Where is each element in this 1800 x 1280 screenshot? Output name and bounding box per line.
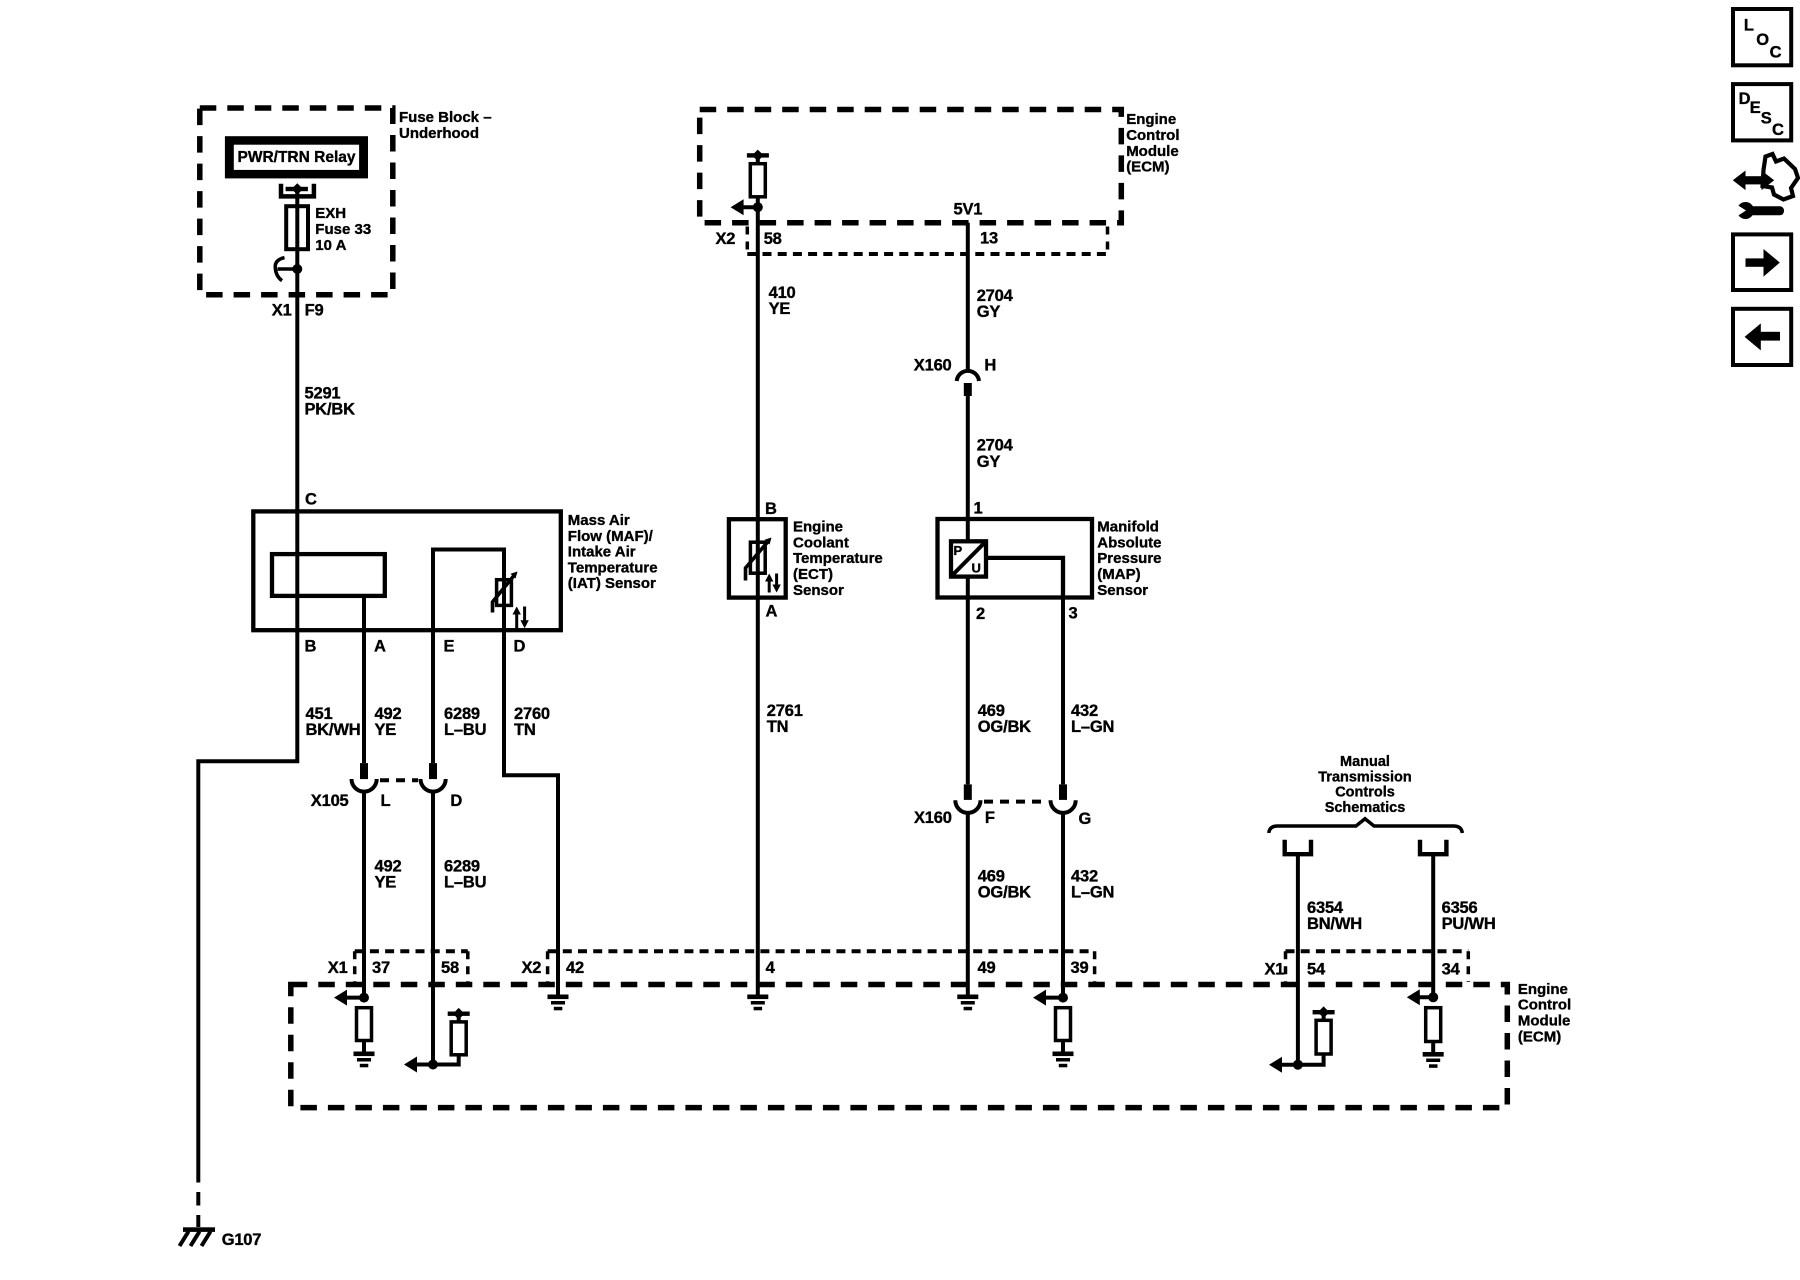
ground symbol at pin 42 — [548, 985, 569, 1011]
tap bar with diamond above ECM internal resistor — [747, 150, 769, 164]
connector cup below relay — [281, 184, 314, 197]
svg-text:Controls: Controls — [1335, 785, 1395, 801]
resistor below pin 39 — [1056, 1008, 1071, 1052]
svg-text:37: 37 — [372, 959, 390, 977]
fuse block underhood dashed box — [200, 108, 393, 295]
inline connector X105 pin D — [421, 763, 446, 792]
wire label 2760 TN — [514, 705, 550, 739]
junction dot pin 58 — [428, 1060, 438, 1070]
wire label 6354 BN/WH — [1307, 899, 1362, 933]
svg-text:TN: TN — [767, 718, 789, 736]
svg-text:Pressure: Pressure — [1097, 550, 1161, 567]
svg-text:Sensor: Sensor — [793, 582, 844, 599]
inline connector X160 pin H — [914, 356, 996, 396]
svg-text:C: C — [1772, 121, 1784, 139]
junction dot pin 39 — [1058, 993, 1068, 1003]
wire label 432 L-GN lower — [1071, 867, 1114, 901]
svg-text:2: 2 — [976, 605, 985, 623]
wire 2704 from X160 H to MAP sensor pin 1 — [966, 396, 970, 541]
svg-text:F: F — [985, 809, 995, 827]
dashed tie between X105 connectors — [380, 778, 418, 782]
svg-text:Manifold: Manifold — [1097, 519, 1159, 536]
svg-text:58: 58 — [441, 959, 459, 977]
svg-text:4: 4 — [766, 959, 776, 977]
svg-text:5V1: 5V1 — [954, 201, 983, 219]
inline connector X105 pin L — [352, 763, 377, 792]
svg-text:Fuse 33: Fuse 33 — [315, 221, 371, 238]
MAP sensor box — [938, 519, 1093, 598]
label Engine Control Module ECM top — [1126, 111, 1179, 175]
svg-text:EXH: EXH — [315, 205, 346, 222]
icon diagnostic tool (arrows and wrench) — [1733, 154, 1798, 219]
wire from resistor to pin 58 and down to ECT sensor — [756, 197, 760, 519]
wire E bend inside MAF box — [433, 550, 504, 631]
label Manifold Absolute Pressure MAP Sensor — [1097, 519, 1161, 599]
fuse clip hook symbol — [275, 258, 299, 281]
svg-text:(MAP): (MAP) — [1097, 566, 1140, 583]
svg-text:H: H — [984, 356, 996, 374]
junction dot at fuse output — [292, 264, 302, 274]
icon DESC button — [1733, 84, 1791, 140]
harness connector cup pin 54 feed — [1285, 840, 1311, 854]
wire label 492 YE upper — [375, 705, 402, 739]
svg-text:L: L — [381, 792, 391, 810]
resistor below pin 37 — [357, 1008, 372, 1052]
svg-text:Flow (MAF)/: Flow (MAF)/ — [568, 528, 654, 545]
chassis ground G107 — [180, 1227, 262, 1249]
svg-text:10 A: 10 A — [315, 237, 346, 254]
svg-text:OG/BK: OG/BK — [978, 718, 1031, 736]
internal arrow at pin 58 — [404, 1057, 433, 1073]
connector row X1 left of bottom ECM — [355, 951, 468, 982]
junction dot pin 54 — [1293, 1060, 1303, 1070]
svg-text:Temperature: Temperature — [568, 559, 658, 576]
connector row X2 of bottom ECM — [548, 951, 1095, 982]
pin labels 2 3 — [976, 605, 1078, 623]
wire from MAP element to pin 3 — [986, 558, 1063, 598]
internal arrow at pin 39 — [1033, 990, 1063, 1006]
svg-text:O: O — [1756, 31, 1769, 49]
svg-text:X1: X1 — [328, 959, 348, 977]
terminal tap bar with diamond at fuse top — [286, 183, 308, 195]
svg-text:OG/BK: OG/BK — [978, 883, 1031, 901]
svg-text:B: B — [765, 500, 777, 518]
svg-text:Absolute: Absolute — [1097, 534, 1161, 551]
svg-text:A: A — [766, 602, 778, 620]
junction dot pin 34 — [1428, 992, 1438, 1002]
ground symbol at pin 49 — [957, 995, 978, 1011]
MAP transducer P/U element — [951, 541, 986, 576]
internal arrow at pin 34 — [1407, 989, 1433, 1005]
wire label 469 OG/BK upper — [978, 702, 1031, 736]
pin label X1 F9 — [272, 301, 324, 319]
svg-text:A: A — [374, 637, 386, 655]
wire from X105 L to ECM pin 37 — [362, 791, 366, 997]
labels X160 F G — [914, 809, 1091, 828]
svg-text:Fuse Block –: Fuse Block – — [399, 109, 492, 126]
wire D from IAT to pin 42 run — [504, 605, 558, 994]
pin labels X2 58 13 — [716, 230, 998, 249]
svg-text:G107: G107 — [222, 1231, 262, 1249]
svg-text:X1: X1 — [272, 301, 292, 319]
wire label 6289 L-BU upper — [444, 705, 486, 739]
svg-text:YE: YE — [375, 721, 397, 739]
svg-text:TN: TN — [514, 721, 536, 739]
inline connector X160 pin G — [1051, 784, 1076, 812]
ground symbol below pin 37 resistor — [354, 1052, 375, 1068]
internal arrow at pin 37 — [334, 990, 364, 1006]
harness connector cup pin 34 feed — [1420, 840, 1446, 854]
ground symbol below pin 39 resistor — [1053, 1052, 1074, 1068]
svg-text:Module: Module — [1518, 1013, 1571, 1030]
svg-text:Control: Control — [1518, 997, 1571, 1014]
svg-text:YE: YE — [769, 300, 791, 318]
svg-text:Sensor: Sensor — [1097, 582, 1148, 599]
svg-text:X2: X2 — [716, 230, 736, 248]
connector row X1 right of bottom ECM — [1286, 951, 1469, 982]
svg-text:49: 49 — [978, 959, 996, 977]
inline connector X160 pin F — [955, 784, 980, 813]
svg-text:Engine: Engine — [1518, 981, 1568, 998]
svg-text:S: S — [1761, 109, 1772, 127]
pin labels B A E D — [305, 637, 526, 655]
svg-text:34: 34 — [1442, 961, 1461, 979]
svg-text:1: 1 — [974, 499, 983, 517]
svg-text:U: U — [972, 561, 981, 576]
wire label 6356 PU/WH — [1442, 899, 1496, 933]
pin labels X2 42 4 49 39 — [522, 959, 1089, 977]
svg-text:PWR/TRN Relay: PWR/TRN Relay — [238, 149, 356, 166]
svg-text:Coolant: Coolant — [793, 534, 849, 551]
resistor below pin 34 — [1426, 1008, 1441, 1052]
svg-text:GY: GY — [977, 453, 1001, 471]
svg-text:E: E — [444, 637, 455, 655]
svg-text:Mass Air: Mass Air — [568, 512, 630, 529]
svg-text:L–GN: L–GN — [1071, 883, 1114, 901]
svg-text:42: 42 — [566, 959, 584, 977]
wire from X160 G to ECM pin 39 — [1061, 813, 1065, 998]
label Mass Air Flow MAF IAT Sensor — [568, 512, 658, 592]
wire 2761 from ECT pin A to ECM pin 4 — [756, 598, 760, 995]
icon previous-page arrow button — [1733, 309, 1791, 365]
icon LOC button — [1733, 9, 1791, 65]
svg-text:PK/BK: PK/BK — [305, 401, 356, 419]
wire label 2704 GY upper — [977, 287, 1014, 321]
svg-text:Engine: Engine — [1126, 111, 1176, 128]
internal arrow to ECM circuits — [731, 199, 758, 215]
ground symbol below pin 34 resistor — [1423, 1052, 1444, 1068]
svg-text:GY: GY — [977, 303, 1001, 321]
svg-text:C: C — [1770, 43, 1782, 61]
wire 6356 to ECM pin 34 — [1431, 854, 1435, 997]
svg-text:Manual: Manual — [1340, 754, 1390, 770]
svg-text:X1: X1 — [1265, 961, 1285, 979]
svg-text:YE: YE — [375, 874, 397, 892]
wire E from MAF box to X105 D — [431, 630, 435, 763]
svg-text:D: D — [450, 792, 462, 810]
wire 6354 to ECM pin 54 — [1296, 854, 1300, 1064]
wire label 492 YE lower — [375, 858, 402, 892]
svg-text:Temperature: Temperature — [793, 550, 883, 567]
svg-text:X160: X160 — [914, 356, 952, 374]
svg-text:L–GN: L–GN — [1071, 718, 1114, 736]
wire label 5291 PK/BK — [305, 385, 356, 419]
dashed wire to G107 — [196, 1169, 200, 1227]
wire label 451 BK/WH — [306, 705, 361, 739]
wire 5V1 from ECM pin 13 down to X160 H — [966, 223, 970, 371]
wire label 432 L-GN upper — [1071, 702, 1114, 736]
junction dot on wire 410 — [753, 202, 763, 212]
svg-text:L–BU: L–BU — [444, 874, 486, 892]
labels X105 L D — [311, 792, 463, 810]
svg-text:F9: F9 — [305, 301, 324, 319]
resistor inside top ECM — [750, 164, 765, 197]
icon next-page arrow button — [1733, 234, 1791, 290]
airflow arrows inside MAF box — [513, 607, 529, 629]
pin labels X1 54 34 — [1265, 961, 1461, 979]
svg-text:58: 58 — [764, 230, 782, 248]
svg-text:3: 3 — [1069, 605, 1078, 623]
svg-text:13: 13 — [980, 230, 998, 248]
wire from X105 D to ECM pin 58 — [431, 791, 435, 1064]
wire from relay through fuse down to MAF pin C — [295, 189, 299, 511]
pin labels X1 37 58 — [328, 959, 459, 977]
wire label 410 YE — [769, 284, 796, 318]
wire label 469 OG/BK lower — [978, 867, 1031, 901]
svg-text:(ECM): (ECM) — [1518, 1028, 1561, 1045]
svg-text:(ECM): (ECM) — [1126, 159, 1169, 176]
wire label 6289 L-BU lower — [444, 858, 486, 892]
svg-text:PU/WH: PU/WH — [1442, 915, 1496, 933]
wire MAP pin 2 down to X160 F — [966, 577, 970, 785]
svg-text:X2: X2 — [522, 959, 542, 977]
svg-text:P: P — [954, 543, 963, 558]
svg-text:BN/WH: BN/WH — [1307, 915, 1362, 933]
IAT thermistor — [493, 572, 518, 613]
svg-text:D: D — [514, 637, 526, 655]
svg-text:39: 39 — [1071, 959, 1089, 977]
svg-text:E: E — [1750, 99, 1761, 117]
junction dot pin 37 — [359, 993, 369, 1003]
brace over manual transmission feeds — [1269, 819, 1463, 833]
wire from X160 F to ECM pin 49 — [966, 813, 970, 995]
ground symbol at pin 4 — [747, 995, 768, 1011]
pull-up resistor branch at pin 58 — [433, 1008, 470, 1065]
engine control module bottom dashed box — [291, 985, 1508, 1108]
svg-text:L–BU: L–BU — [444, 721, 486, 739]
label Manual Transmission Controls Schematics — [1318, 754, 1411, 816]
svg-text:(ECT): (ECT) — [793, 566, 833, 583]
pull-up resistor branch at pin 54 — [1298, 1006, 1335, 1064]
fuse EXH Fuse 33 10A — [286, 205, 371, 254]
internal arrow at pin 54 — [1269, 1057, 1298, 1073]
svg-text:G: G — [1079, 810, 1092, 828]
wire B from MAF down left to ground run — [198, 511, 297, 1169]
wire A from MAF to X105 L — [362, 596, 366, 763]
wire label 2704 GY lower — [977, 437, 1014, 471]
svg-text:BK/WH: BK/WH — [306, 721, 361, 739]
label Fuse Block Underhood — [399, 109, 492, 142]
dashed tie between X160 connectors — [984, 800, 1048, 804]
svg-text:L: L — [1744, 17, 1754, 35]
MAF/IAT sensor box — [253, 511, 561, 630]
svg-text:Intake Air: Intake Air — [568, 544, 636, 561]
svg-text:X160: X160 — [914, 809, 952, 827]
svg-text:B: B — [305, 637, 317, 655]
temperature arrows inside ECT box — [765, 574, 781, 593]
connector row X2 of top ECM — [747, 227, 1107, 255]
wire label 2761 TN — [767, 702, 803, 736]
svg-text:Engine: Engine — [793, 519, 843, 536]
engine control module top dashed box — [700, 110, 1122, 223]
svg-text:(IAT) Sensor: (IAT) Sensor — [568, 575, 656, 592]
svg-text:Control: Control — [1126, 127, 1179, 144]
svg-text:54: 54 — [1307, 961, 1326, 979]
label Engine Coolant Temperature ECT Sensor — [793, 519, 883, 599]
svg-text:X105: X105 — [311, 792, 349, 810]
svg-text:Transmission: Transmission — [1318, 769, 1411, 785]
svg-text:Underhood: Underhood — [399, 125, 479, 142]
relay K: PWR/TRN Relay box — [225, 136, 368, 178]
svg-text:C: C — [305, 491, 317, 509]
ECT sensor box — [729, 519, 786, 597]
svg-text:Module: Module — [1126, 143, 1179, 160]
ECT thermistor — [746, 519, 772, 597]
MAF element rectangle — [272, 554, 385, 596]
wire MAP pin 3 down to X160 G — [1061, 598, 1065, 785]
label Engine Control Module ECM bottom — [1518, 981, 1571, 1045]
svg-text:Schematics: Schematics — [1325, 800, 1406, 816]
